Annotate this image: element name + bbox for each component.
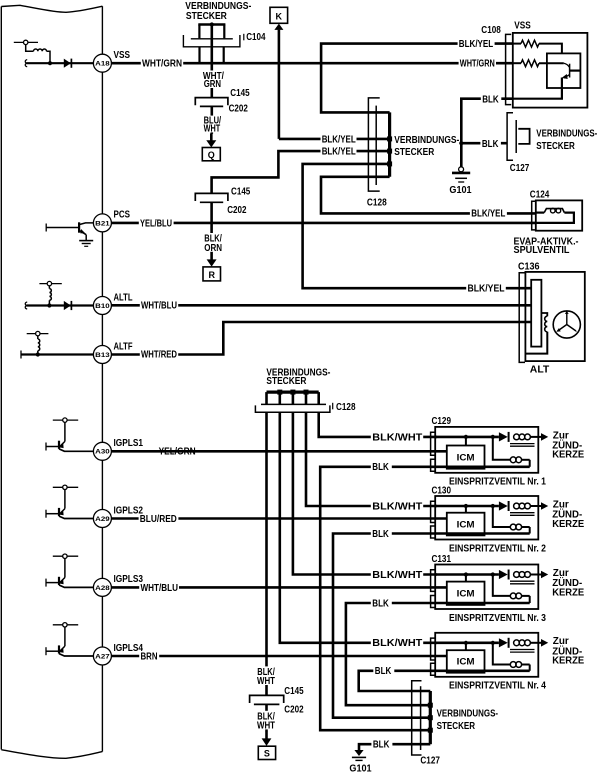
svg-text:G101: G101 — [449, 185, 472, 196]
label C145 (second) — [231, 187, 251, 198]
label BRN — [139, 651, 159, 662]
injector 2 ignition coil secondary — [514, 503, 541, 509]
ground G101 (top) — [452, 167, 470, 182]
svg-text:KERZE: KERZE — [552, 450, 584, 461]
svg-text:YEL/BLU: YEL/BLU — [140, 218, 172, 229]
injector 1 ignition coil primary — [510, 457, 529, 467]
label BLK (injector 3) — [371, 598, 392, 609]
wire WHT/GRN A18 to C108 — [111, 62, 512, 65]
terminal box S — [258, 746, 275, 759]
B21 internal ground — [79, 241, 93, 247]
svg-text:STECKER: STECKER — [266, 376, 307, 387]
svg-text:S: S — [264, 749, 270, 759]
injector 4 diode — [499, 638, 509, 648]
label BLK (C127 top) — [480, 139, 501, 150]
svg-text:BLK/YEL: BLK/YEL — [471, 208, 505, 219]
pin B21 PCS — [93, 210, 130, 232]
svg-text:Q: Q — [208, 150, 215, 160]
wire BLK/YEL C128 pin4 to C124 — [321, 177, 536, 214]
wire BLK/YEL C128 pin3 to C136 ALT — [303, 164, 532, 288]
EVAP valve coil — [536, 208, 574, 223]
wire WHT/GRN vertical (C104 to C145) — [211, 25, 214, 98]
label C128 (bottom) — [333, 402, 356, 413]
svg-text:C202: C202 — [229, 104, 249, 115]
injector 1 output arrow — [541, 433, 548, 441]
wire BLU/WHT to Q — [211, 106, 214, 133]
svg-text:C128: C128 — [336, 402, 356, 413]
svg-text:SPÜLVENTIL: SPÜLVENTIL — [514, 243, 570, 256]
label EVAP-AKTIVK.- — [514, 236, 579, 247]
terminal box Q — [202, 148, 220, 161]
injector 1 connector bracket — [431, 432, 436, 471]
pin B13 ALTF — [93, 341, 132, 363]
label C130 — [432, 485, 452, 496]
label C127 (bottom) — [420, 755, 440, 766]
svg-text:ICM: ICM — [457, 519, 475, 529]
injector 4 ignition coil primary — [510, 662, 529, 671]
svg-text:VSS: VSS — [514, 20, 531, 31]
wire WHT/BLU B10 to C136 — [111, 304, 531, 307]
svg-text:BLK/YEL: BLK/YEL — [322, 134, 356, 145]
svg-text:BLK: BLK — [375, 666, 392, 677]
label Zur ZUENDKERZE (2) — [552, 499, 584, 529]
injector box 3 outline — [435, 565, 538, 610]
connector C202 (third lower half) — [254, 703, 280, 705]
connector C108 bracket — [506, 34, 512, 104]
bus wire 1 (to C145/S) — [265, 412, 268, 695]
label ALT — [530, 364, 550, 375]
svg-text:BLK: BLK — [372, 529, 389, 540]
injector 3 coil core — [510, 581, 535, 584]
svg-text:YEL/GRN: YEL/GRN — [159, 447, 196, 458]
svg-text:C104: C104 — [246, 32, 266, 43]
ECU connector box (torn edge outline) — [1, 5, 102, 758]
svg-text:WHT: WHT — [257, 676, 275, 687]
label BLK/YEL (pin1) — [321, 134, 357, 145]
svg-text:WHT/GRN: WHT/GRN — [460, 58, 495, 69]
VSS resistor R1 — [513, 40, 562, 53]
svg-text:G101: G101 — [349, 764, 372, 774]
label BLU/WHT — [203, 115, 223, 134]
A18 internal wire — [25, 60, 93, 67]
svg-text:ICM: ICM — [457, 588, 475, 598]
label C127 (top) — [510, 163, 530, 174]
label BLK/WHT (below C145) — [256, 711, 278, 732]
wire BLK (injector 1 to C127) — [320, 467, 530, 730]
label VERBINDUNGS-STECKER (C104) — [185, 1, 251, 22]
wire WHT/BLU A28 to injector 3 — [111, 586, 446, 589]
svg-text:A27: A27 — [95, 653, 110, 660]
pin A18 VSS — [93, 50, 130, 72]
injector 4 coil core — [510, 650, 535, 653]
label BLK/YEL (C124) — [470, 208, 507, 219]
EVAP valve box C124 — [536, 200, 582, 230]
injector 3 ignition coil secondary — [514, 572, 541, 578]
terminal box R — [203, 267, 221, 281]
svg-text:EINSPRITZVENTIL Nr. 1: EINSPRITZVENTIL Nr. 1 — [449, 477, 546, 488]
label WHT/BLU (B10) — [140, 301, 178, 312]
svg-text:IGPLS4: IGPLS4 — [114, 643, 144, 654]
svg-text:C130: C130 — [432, 485, 452, 496]
label WHT/GRN (left) — [141, 57, 183, 69]
IGPLS3 internal transistor — [46, 554, 93, 587]
svg-text:BLK/YEL: BLK/YEL — [322, 147, 356, 158]
svg-text:BLK: BLK — [482, 139, 499, 150]
connector C202 (second lower half) — [200, 201, 223, 203]
label BLK/WHT (injector 4) — [371, 638, 423, 649]
arrow to R — [207, 252, 217, 267]
wire BLK/WHT to S — [265, 704, 268, 731]
wire BLK/YEL to C128 pin1 — [279, 138, 390, 141]
IGPLS2 internal transistor — [46, 485, 93, 518]
connector C127 (bottom) male bar — [428, 691, 433, 744]
connector C104 female — [183, 35, 240, 47]
injector 2 top wire — [435, 504, 510, 527]
svg-text:BLK/WHT: BLK/WHT — [372, 432, 422, 443]
injector 2 diode — [499, 501, 509, 511]
label BLK (C108) — [481, 94, 502, 105]
B21 internal transistor — [46, 222, 93, 240]
pin B10 ALTL — [93, 292, 132, 314]
bus wire 5 (to injector 1) — [319, 412, 437, 437]
A18 internal pull-up resistor — [14, 40, 52, 65]
wire BLK (injector 3 to C127) — [346, 603, 530, 705]
svg-text:BLK/YEL: BLK/YEL — [459, 39, 493, 50]
wire BLK (injector 2 to C127) — [333, 534, 530, 718]
connector C128 (bottom) male bar — [267, 390, 319, 395]
label BLK/YEL (ALT) — [466, 284, 506, 295]
svg-text:C202: C202 — [227, 205, 247, 216]
svg-text:WHT: WHT — [257, 720, 275, 731]
label EINSPRITZVENTIL Nr. 3 — [449, 613, 546, 624]
label G101 (bottom) — [349, 764, 372, 774]
generator symbol — [553, 311, 580, 338]
svg-text:ALTL: ALTL — [114, 292, 133, 303]
label EINSPRITZVENTIL Nr. 4 — [449, 681, 546, 692]
label BLK (injector 4) — [373, 666, 394, 677]
svg-text:BLK/WHT: BLK/WHT — [372, 638, 422, 649]
connector C128 (top) male bar — [387, 112, 392, 176]
ECU box right edge (wire) — [101, 6, 103, 751]
svg-text:BLK/YEL: BLK/YEL — [468, 284, 505, 295]
label YEL/BLU — [139, 218, 174, 229]
label BLK (G101) — [371, 740, 392, 751]
svg-text:KERZE: KERZE — [552, 587, 584, 598]
svg-text:C145: C145 — [231, 187, 251, 198]
injector box 2 outline — [435, 496, 538, 540]
label C128 (top) — [367, 198, 387, 209]
B10 internal pull-up resistor — [39, 281, 61, 307]
label C202 (second) — [227, 205, 247, 216]
wire BLK/ORN to R — [210, 202, 213, 233]
arrow to Q — [206, 134, 216, 148]
svg-text:A30: A30 — [95, 449, 110, 456]
svg-text:C136: C136 — [518, 261, 540, 272]
svg-text:VSS: VSS — [114, 50, 131, 61]
injector 1 ignition coil secondary — [514, 434, 541, 440]
label BLU/RED — [139, 514, 179, 525]
A18 internal diode — [64, 59, 72, 68]
pin A29 IGPLS2 — [93, 505, 143, 527]
connector C127 (bottom) female — [412, 681, 422, 755]
arrow to K — [274, 24, 283, 139]
injector 3 top wire — [435, 572, 510, 596]
connector C145 (third upper half) — [250, 695, 284, 703]
injector 3 diode — [499, 570, 509, 580]
svg-text:C128: C128 — [367, 198, 387, 209]
svg-text:VERBINDUNGS-: VERBINDUNGS- — [437, 709, 499, 720]
label C131 — [432, 554, 452, 565]
svg-text:KERZE: KERZE — [552, 656, 584, 667]
svg-text:ICM: ICM — [457, 452, 475, 462]
connector C202 (lower half) — [200, 105, 223, 107]
svg-text:VERBINDUNGS-: VERBINDUNGS- — [536, 129, 597, 140]
svg-text:PCS: PCS — [114, 210, 131, 221]
label BLK (injector 2) — [371, 529, 392, 540]
label EINSPRITZVENTIL Nr. 1 — [449, 477, 546, 488]
svg-text:K: K — [276, 12, 283, 22]
injector 4 ICM box — [447, 650, 485, 673]
label BLK (injector 1) — [371, 462, 392, 473]
label VERBINDUNGS-STECKER (C128 bottom) — [266, 368, 330, 387]
svg-text:BLK/WHT: BLK/WHT — [372, 570, 422, 581]
injector 2 output arrow — [541, 502, 548, 510]
injector 2 connector bracket — [431, 501, 436, 538]
label VERBINDUNGS-STECKER (C127 bottom) — [437, 709, 499, 732]
wire YEL/BLU B21 to C124 — [111, 222, 535, 225]
svg-text:STECKER: STECKER — [536, 141, 575, 152]
bus wire 2 (to injector 4) — [280, 412, 437, 643]
svg-text:EINSPRITZVENTIL Nr. 2: EINSPRITZVENTIL Nr. 2 — [449, 543, 546, 554]
svg-text:EINSPRITZVENTIL Nr. 3: EINSPRITZVENTIL Nr. 3 — [449, 613, 546, 624]
label C145 (first) — [230, 88, 250, 99]
connector C104 male bar — [198, 22, 225, 38]
label BLK/ORN — [204, 233, 222, 254]
label VSS — [514, 20, 531, 31]
label C145 (third) — [284, 686, 304, 697]
svg-text:BLU/RED: BLU/RED — [140, 514, 177, 525]
svg-text:A29: A29 — [95, 516, 110, 523]
svg-text:STECKER: STECKER — [437, 721, 476, 732]
wire BLK/YEL C128 pin2 to C145/C202 — [212, 151, 390, 193]
svg-text:C131: C131 — [432, 554, 452, 565]
injector box 1 outline — [435, 427, 538, 473]
wire BLK G101 to C127 — [359, 744, 430, 750]
injector 4 top wire — [435, 641, 510, 665]
svg-text:WHT/BLU: WHT/BLU — [141, 583, 179, 594]
bus wire 3 (to injector 3) — [293, 412, 437, 574]
label EINSPRITZVENTIL Nr. 2 — [449, 543, 546, 554]
label C129 — [432, 416, 452, 427]
label VERBINDUNGS-STECKER (C128 top) — [394, 135, 459, 158]
svg-text:BLK: BLK — [372, 598, 389, 609]
connector C128 (bottom) pins — [267, 392, 319, 404]
label C108 — [481, 25, 501, 36]
label WHT/GRN (right) — [459, 56, 496, 69]
injector 3 output arrow — [541, 571, 548, 579]
label WHT/BLU (IGPLS3) — [139, 583, 179, 594]
injector 1 coil core — [510, 444, 535, 447]
label SPUELVENTIL — [514, 243, 570, 256]
svg-text:ICM: ICM — [457, 657, 475, 667]
injector 3 ignition coil primary — [510, 593, 529, 603]
svg-text:IGPLS3: IGPLS3 — [114, 574, 144, 585]
wire BRN A27 to injector 4 — [111, 655, 446, 658]
svg-text:EINSPRITZVENTIL Nr. 4: EINSPRITZVENTIL Nr. 4 — [449, 681, 546, 692]
injector box 4 outline — [435, 633, 538, 677]
speed sensor VSS box C108 — [513, 33, 588, 108]
svg-text:BLK: BLK — [372, 462, 389, 473]
injector 1 diode — [499, 432, 509, 442]
injector 2 ignition coil primary — [510, 524, 529, 533]
alternator inner bar — [531, 280, 541, 347]
label C124 — [530, 190, 550, 201]
label Zur ZUENDKERZE (1) — [552, 430, 584, 460]
arrow to S — [262, 731, 272, 746]
wire BLU/RED A29 to injector 2 — [111, 517, 446, 520]
svg-text:WHT: WHT — [204, 124, 221, 135]
svg-text:WHT/RED: WHT/RED — [141, 350, 177, 361]
svg-text:C108: C108 — [481, 25, 501, 36]
svg-text:STECKER: STECKER — [394, 147, 435, 158]
label BLK/WHT (injector 3) — [371, 570, 423, 581]
VSS transistor — [513, 63, 581, 98]
svg-text:B13: B13 — [95, 352, 110, 359]
label WHT/GRN (vertical) — [202, 71, 225, 91]
injector 3 ICM box — [447, 582, 485, 605]
svg-text:C145: C145 — [284, 686, 304, 697]
svg-text:KERZE: KERZE — [552, 519, 584, 530]
label C136 — [518, 261, 540, 272]
pin A27 IGPLS4 — [93, 643, 143, 665]
injector 2 ICM box — [447, 513, 485, 536]
B10 internal diode — [64, 301, 72, 310]
pin A28 IGPLS3 — [93, 574, 143, 596]
svg-text:VERBINDUNGS-: VERBINDUNGS- — [394, 135, 459, 146]
svg-text:IGPLS1: IGPLS1 — [114, 438, 144, 449]
svg-text:C127: C127 — [420, 755, 440, 766]
label BLK/WHT (injector 2) — [371, 501, 423, 512]
wire WHT/RED B13 to C136 — [111, 322, 531, 355]
svg-text:WHT/BLU: WHT/BLU — [141, 301, 177, 312]
connector C104 pin legs — [200, 47, 224, 63]
injector 4 connector bracket — [431, 638, 436, 675]
svg-text:A28: A28 — [95, 585, 110, 592]
injector 1 top wire — [435, 435, 510, 460]
wire BLK (injector 4 to C127) — [359, 671, 530, 691]
bus wire 4 (to injector 2) — [306, 412, 437, 506]
svg-text:B10: B10 — [95, 303, 110, 310]
injector 3 connector bracket — [431, 570, 436, 608]
ground G101 (bottom) — [352, 750, 366, 760]
B13 internal pull-up resistor — [27, 331, 49, 356]
wire BLK/YEL C108 to C128 top — [321, 44, 513, 113]
label G101 (top) — [449, 185, 472, 196]
label BLK/YEL (C108) — [458, 39, 495, 50]
B13 internal wire — [21, 351, 93, 359]
label Zur ZUENDKERZE (3) — [552, 568, 584, 598]
connector C124 bracket — [532, 201, 536, 230]
svg-text:C129: C129 — [432, 416, 452, 427]
label WHT/RED — [140, 350, 178, 361]
pin A30 IGPLS1 — [93, 438, 143, 460]
injector 4 ignition coil secondary — [514, 640, 541, 646]
label BLK/YEL (pin2) — [321, 147, 357, 158]
injector 1 ICM box — [447, 446, 485, 469]
svg-text:BRN: BRN — [141, 651, 158, 662]
B10 internal wire — [25, 302, 93, 309]
connector C127 (top) — [507, 113, 529, 161]
wire BLK to C127 — [459, 141, 507, 145]
injector 2 coil core — [510, 513, 535, 516]
svg-text:ORN: ORN — [204, 243, 222, 254]
label BLK/WHT (above C145) — [256, 666, 278, 687]
svg-text:B21: B21 — [95, 220, 110, 227]
alternator rotor coil — [525, 313, 547, 354]
svg-text:ALTF: ALTF — [114, 341, 133, 352]
svg-text:GRN: GRN — [204, 79, 221, 90]
svg-text:R: R — [208, 270, 215, 280]
svg-text:WHT/GRN: WHT/GRN — [142, 58, 182, 69]
VSS resistor R2 — [513, 60, 564, 67]
terminal box K — [270, 7, 288, 23]
IGPLS1 internal transistor — [46, 418, 93, 451]
connector C128 (bottom) female — [255, 404, 330, 412]
connector C136 bracket — [519, 273, 525, 363]
label C104 — [244, 32, 266, 43]
svg-text:STECKER: STECKER — [186, 11, 228, 22]
svg-text:C127: C127 — [510, 163, 530, 174]
label C202 (third) — [284, 705, 304, 716]
connector C145 (upper half) — [195, 98, 228, 106]
label BLK/WHT (injector 1) — [371, 432, 423, 443]
svg-text:BLK/WHT: BLK/WHT — [372, 501, 422, 512]
connector C128 (top) female bracket — [368, 98, 379, 191]
svg-text:BLK: BLK — [482, 95, 499, 106]
VSS inner box — [547, 53, 581, 88]
wire YEL/GRN A30 to injector 1 — [111, 447, 446, 458]
svg-text:A18: A18 — [95, 61, 110, 68]
IGPLS4 internal transistor — [46, 623, 93, 656]
svg-text:C124: C124 — [530, 190, 550, 201]
connector C145 (second upper half) — [195, 193, 228, 201]
label C202 (first) — [229, 104, 249, 115]
label VERBINDUNGS-STECKER (C127 top) — [536, 129, 597, 152]
svg-text:BLK: BLK — [373, 740, 390, 751]
alternator box C136 — [525, 272, 584, 361]
label Zur ZUENDKERZE (4) — [552, 636, 584, 666]
svg-text:ALT: ALT — [530, 364, 550, 375]
wire BLK C108 to G101 — [461, 99, 513, 167]
svg-text:C202: C202 — [284, 705, 304, 716]
svg-text:C145: C145 — [230, 88, 250, 99]
injector 4 output arrow — [541, 639, 548, 647]
